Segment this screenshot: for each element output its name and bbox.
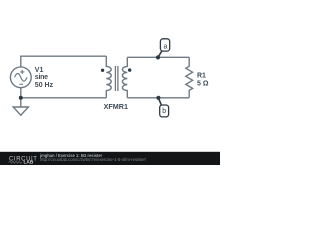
- ground: [13, 98, 28, 115]
- node junction dot at ground: [19, 96, 23, 100]
- node a flag box: [160, 39, 169, 51]
- label R1 5 Ohm: [197, 73, 209, 88]
- svg-text:5 Ω: 5 Ω: [197, 81, 209, 88]
- resistor R1: [186, 57, 193, 98]
- svg-text:http://circuitlab.com/c/zw5m7e: http://circuitlab.com/c/zw5m7e/exercise-…: [40, 157, 147, 162]
- node b pointer: [158, 98, 161, 106]
- node b flag box: [160, 105, 169, 117]
- svg-text:R1: R1: [197, 73, 206, 80]
- wire right loop bottom: [127, 97, 189, 99]
- node a junction dot: [156, 55, 160, 59]
- svg-text:LAB: LAB: [24, 160, 34, 165]
- wire left loop bottom: [21, 88, 107, 98]
- voltage source V1: [10, 67, 31, 88]
- watermark bar: [0, 152, 220, 165]
- polarity dot secondary: [128, 68, 131, 71]
- transformer XFMR1 primary winding: [106, 56, 111, 98]
- svg-text:V1: V1: [35, 67, 44, 74]
- transformer core: [115, 66, 118, 91]
- node b junction dot: [156, 96, 160, 100]
- polarity dot primary: [101, 69, 104, 72]
- transformer XFMR1 secondary winding: [122, 57, 127, 98]
- wire left loop top: [21, 56, 107, 67]
- svg-text:50 Hz: 50 Hz: [35, 82, 54, 89]
- svg-text:b: b: [162, 108, 166, 115]
- node a pointer: [158, 51, 162, 57]
- label V1 sine 50 Hz: [35, 67, 54, 89]
- wire right loop top: [127, 56, 189, 58]
- svg-text:a: a: [163, 43, 167, 50]
- svg-text:XFMR1: XFMR1: [104, 102, 128, 111]
- watermark logo squiggle: [9, 161, 23, 163]
- svg-text:sine: sine: [35, 74, 48, 81]
